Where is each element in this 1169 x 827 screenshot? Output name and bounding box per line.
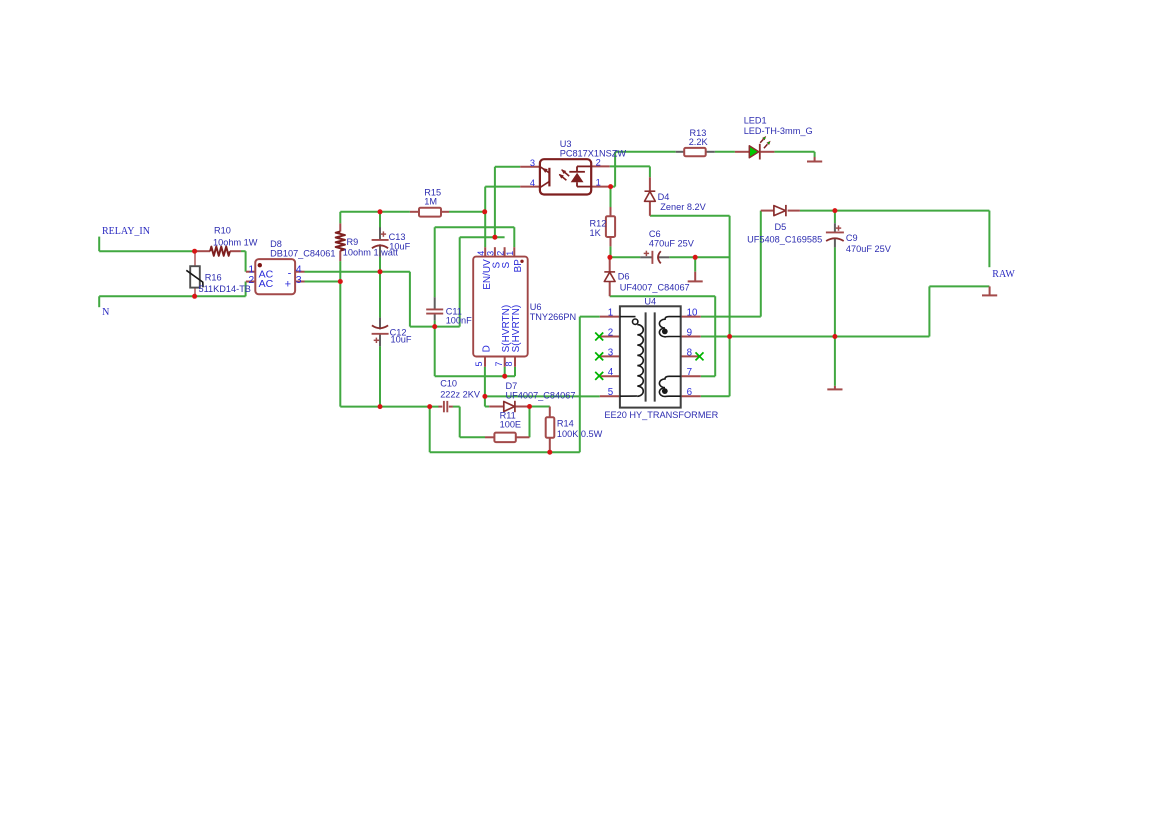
svg-text:DB107_C84061: DB107_C84061 — [270, 249, 335, 259]
svg-text:UF4007_C84067: UF4007_C84067 — [620, 283, 690, 293]
svg-text:D6: D6 — [618, 272, 630, 282]
svg-text:1: 1 — [608, 308, 613, 319]
svg-text:3: 3 — [486, 251, 496, 256]
svg-text:7: 7 — [494, 361, 504, 366]
svg-text:AC: AC — [259, 278, 274, 290]
svg-text:D5: D5 — [775, 222, 787, 232]
svg-text:U6: U6 — [530, 302, 542, 312]
svg-text:9: 9 — [687, 327, 692, 338]
svg-text:R9: R9 — [347, 237, 359, 247]
svg-text:1: 1 — [505, 251, 515, 256]
svg-text:8: 8 — [687, 347, 693, 358]
svg-text:4: 4 — [476, 251, 486, 256]
svg-text:3: 3 — [296, 274, 302, 286]
svg-text:C10: C10 — [440, 378, 457, 388]
svg-text:C9: C9 — [846, 233, 858, 243]
svg-text:3: 3 — [608, 347, 614, 358]
svg-text:2: 2 — [248, 274, 254, 286]
svg-text:10ohm 1W: 10ohm 1W — [213, 238, 258, 248]
svg-text:2: 2 — [608, 327, 613, 338]
svg-text:10: 10 — [687, 308, 698, 319]
svg-text:S(HVRTN): S(HVRTN) — [511, 305, 522, 353]
svg-text:S: S — [501, 262, 512, 269]
svg-text:2: 2 — [495, 251, 505, 256]
svg-text:10uF: 10uF — [389, 242, 410, 252]
svg-text:+: + — [285, 279, 291, 291]
svg-text:R10: R10 — [214, 225, 231, 235]
svg-text:470uF 25V: 470uF 25V — [846, 244, 892, 254]
svg-text:PC817X1NSZW: PC817X1NSZW — [560, 149, 627, 159]
svg-text:Zener 8.2V: Zener 8.2V — [660, 202, 706, 212]
svg-text:BP: BP — [513, 259, 524, 273]
svg-text:R12: R12 — [590, 219, 607, 229]
svg-text:R14: R14 — [557, 419, 574, 429]
svg-text:-: - — [288, 267, 292, 279]
svg-text:U3: U3 — [560, 139, 572, 149]
svg-text:1M: 1M — [424, 197, 437, 207]
svg-text:RELAY_IN: RELAY_IN — [102, 226, 150, 237]
svg-text:511KD14-TB: 511KD14-TB — [199, 284, 251, 294]
svg-text:RAW: RAW — [992, 269, 1015, 280]
svg-text:C13: C13 — [389, 232, 406, 242]
svg-text:470uF 25V: 470uF 25V — [649, 239, 695, 249]
svg-text:D4: D4 — [658, 192, 670, 202]
svg-text:7: 7 — [687, 367, 692, 378]
svg-text:100K 0.5W: 100K 0.5W — [557, 429, 603, 439]
svg-text:R16: R16 — [205, 273, 222, 283]
svg-text:6: 6 — [687, 387, 693, 398]
svg-text:4: 4 — [608, 367, 614, 378]
svg-text:LED1: LED1 — [744, 116, 767, 126]
svg-text:EE20 HY_TRANSFORMER: EE20 HY_TRANSFORMER — [604, 410, 718, 420]
svg-text:8: 8 — [504, 361, 514, 366]
svg-text:5: 5 — [608, 387, 614, 398]
svg-text:10uF: 10uF — [391, 335, 412, 345]
svg-text:TNY266PN: TNY266PN — [530, 312, 576, 322]
svg-text:1K: 1K — [590, 228, 602, 238]
svg-text:5: 5 — [474, 361, 484, 366]
svg-text:N: N — [102, 307, 109, 318]
svg-text:100nF: 100nF — [446, 315, 472, 325]
svg-text:UF4007_C84067: UF4007_C84067 — [506, 390, 576, 400]
svg-text:4: 4 — [530, 178, 535, 188]
svg-text:U4: U4 — [644, 297, 656, 307]
svg-text:LED-TH-3mm_G: LED-TH-3mm_G — [744, 126, 813, 136]
svg-text:C6: C6 — [649, 229, 661, 239]
svg-text:100E: 100E — [500, 419, 521, 429]
svg-text:D: D — [481, 345, 492, 352]
svg-text:1: 1 — [596, 177, 601, 187]
svg-text:UF5408_C169585: UF5408_C169585 — [747, 234, 822, 244]
svg-text:2: 2 — [596, 157, 601, 167]
svg-text:222z 2KV: 222z 2KV — [440, 389, 481, 399]
svg-text:2.2K: 2.2K — [689, 137, 709, 147]
svg-text:3: 3 — [530, 158, 535, 168]
